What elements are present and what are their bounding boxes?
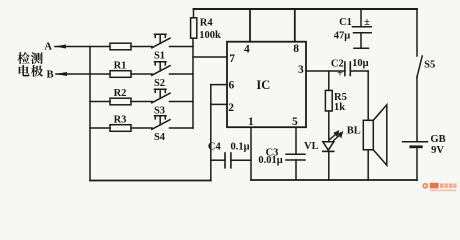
switch S4 blade [152,120,170,130]
svg-text:8: 8 [293,43,299,55]
capacitor C3 plates [286,153,305,155]
battery GB plates [403,141,428,143]
op IC box [227,42,306,128]
wire mid bus [192,38,194,128]
svg-text:R4: R4 [200,17,214,28]
wire electrode A line [55,46,110,48]
watermark logo circle [422,183,428,189]
svg-text:±: ± [364,17,370,28]
svg-text:IC: IC [256,78,270,92]
svg-text:9V: 9V [431,145,444,156]
wire C4 right lead [231,159,251,161]
wire branch4 from left bus [90,127,110,129]
wire top rail V+ [194,8,418,10]
wire electrode B line [56,73,110,75]
svg-text:GB: GB [430,134,445,145]
resistor R3 [110,125,131,132]
switch S1 actuator [155,34,167,43]
svg-text:R2: R2 [114,88,127,99]
svg-text:VL: VL [304,141,319,152]
LED VL light arrows [329,131,342,141]
svg-text:S2: S2 [154,78,165,89]
wire pin8 stub to rail [294,9,296,42]
wire pin4 stub to rail [249,9,251,42]
resistor R1 [110,71,131,78]
wire C2 to speaker branch [350,70,368,72]
resistor R4 [191,18,197,38]
wire left bus [89,47,91,181]
node label 电极 (electrode) [19,65,43,77]
switch S5 blade [417,56,422,77]
resistor R2 [110,98,131,105]
wire branch3 from left bus [90,101,110,103]
svg-text:3: 3 [298,64,304,76]
speaker BL cone [373,105,387,166]
wire C4 left lead [211,159,225,161]
wire resistor to S1 [131,46,152,48]
svg-text:1k: 1k [334,102,345,113]
resistor (A branch, unlabeled) [110,43,131,50]
speaker BL frame [363,120,373,150]
svg-text:+: + [337,69,343,80]
wire down to speaker [367,71,369,120]
svg-text:2: 2 [228,102,234,114]
wire R2 to S3 [131,101,152,103]
wire R3 to S4 [131,127,152,129]
svg-text:R3: R3 [114,115,127,126]
svg-text:BL: BL [347,126,361,137]
svg-text:4: 4 [244,43,250,55]
wire C1 lower lead [360,33,362,48]
wire S4 to mid bus [170,127,194,129]
wire pin6 to tie bus [211,84,227,86]
capacitor C2 plates [344,62,346,76]
wire R5 to LED [328,111,330,142]
wire right bus upper (rail to S5) [416,9,418,56]
wire S3 to mid bus [170,101,194,103]
switch S3 actuator [155,89,167,98]
resistor R5 [325,90,332,111]
wire pin2 to tie bus [211,103,227,105]
node label 检测 (detect) [18,52,43,64]
watermark text blocks [430,183,439,189]
LED VL cathode bar [323,150,334,152]
svg-text:C4: C4 [208,141,222,152]
svg-text:10μ: 10μ [352,58,369,69]
svg-text:0.1μ: 0.1μ [230,142,249,153]
wire battery to bottom rail [416,148,418,180]
wire C1 stub from rail [360,9,362,27]
wire S2 to mid bus [170,73,194,75]
wire pin1 down to rail [250,127,252,180]
wire pin3 to C2 [306,70,345,72]
svg-text:C1: C1 [339,17,352,28]
switch S2 blade [152,66,170,76]
svg-text:1: 1 [248,116,254,128]
svg-text:7: 7 [229,53,235,65]
svg-text:S3: S3 [154,106,165,117]
svg-text:6: 6 [229,79,235,91]
svg-text:B: B [46,69,53,80]
wire bottom rail left [90,180,211,182]
wire S1 to mid bus [170,46,194,48]
wire bottom rail right [251,179,417,181]
wire C3 to rail [295,160,297,180]
svg-text:R1: R1 [114,61,127,72]
wire top rail corner into R4 [193,9,195,18]
svg-text:A: A [44,41,52,52]
node electrode B arrowhead [55,72,67,76]
LED VL triangle [323,142,334,151]
svg-text:S4: S4 [154,132,166,143]
wire R5 branch from pin3 line [328,71,330,90]
capacitor C4 plates [224,153,226,168]
svg-text:5: 5 [292,116,298,128]
node C1 terminal bar [354,47,369,49]
svg-text:S1: S1 [154,51,165,62]
svg-text:100k: 100k [199,30,221,41]
svg-text:0.01μ: 0.01μ [258,155,282,166]
svg-text:S5: S5 [424,60,435,71]
wire S5 to battery [416,77,418,141]
svg-text:47μ: 47μ [334,31,351,42]
wire pin5 down to C3 [295,127,297,154]
switch S2 actuator [155,62,167,71]
wire tie bus pin6/pin2 down to rail [210,85,212,181]
switch S3 blade [152,93,170,103]
switch S4 actuator [155,116,167,125]
switch S1 blade [152,38,170,48]
wire LED to rail [328,151,330,180]
node electrode A arrowhead [54,45,66,49]
capacitor C1 plates [353,26,372,28]
wire speaker to rail [367,150,369,180]
svg-text:R5: R5 [334,92,347,103]
wire R1 to S2 [131,73,152,75]
wire pin7 to IC [193,56,227,58]
